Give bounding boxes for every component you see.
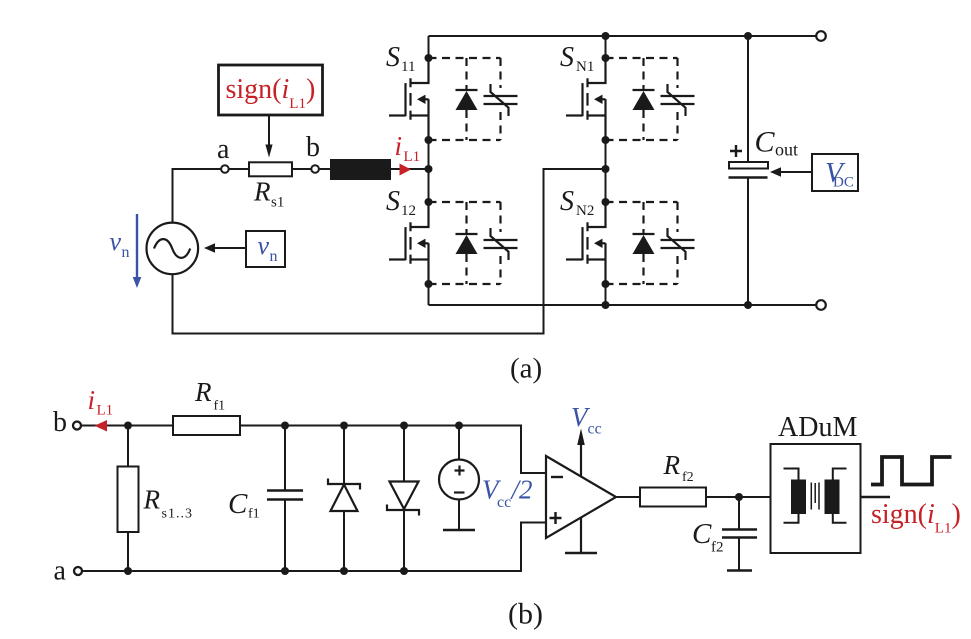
resistor Rs1: [249, 162, 292, 176]
svg-text:C: C: [228, 488, 248, 520]
body diode DN1 dashed net: [606, 58, 678, 140]
box vn: [246, 231, 285, 267]
junction D1 top: [340, 422, 348, 430]
svg-text:cc: cc: [588, 421, 602, 438]
ground Cf2: [727, 569, 752, 572]
switch cell SN2: [566, 202, 695, 284]
junction SN1 drain: [602, 54, 610, 62]
body diode DN2 dashed net: [606, 202, 678, 284]
wire top rail to comparator: [240, 426, 546, 474]
wire Rf2 to ADuM: [706, 496, 771, 498]
arrow vn box to source: [204, 243, 246, 253]
junction SN1 source: [602, 136, 610, 144]
svg-text:C: C: [755, 126, 776, 159]
svg-text:i: i: [395, 131, 403, 161]
wire node b to inductor: [319, 168, 330, 170]
svg-text:v: v: [258, 231, 270, 260]
wire Cout bus: [747, 36, 749, 305]
svg-text:a: a: [217, 134, 230, 165]
junction D1 bottom: [340, 567, 348, 575]
parasitic capacitor CN1: [661, 84, 695, 116]
svg-text:f2: f2: [682, 470, 694, 485]
switch cell S11: [389, 58, 518, 140]
junction neutral node N leg: [602, 165, 610, 173]
wire node a to resistor Rs1: [229, 168, 249, 170]
svg-text:v: v: [110, 227, 122, 256]
mosfet S12: [389, 202, 429, 284]
terminal a: [74, 567, 82, 575]
arrow sign box to Rs1: [265, 115, 272, 158]
svg-text:C: C: [692, 518, 712, 550]
parasitic capacitor C11: [484, 84, 518, 116]
wire bottom rail to comparator plus: [82, 523, 546, 572]
svg-text:(a): (a): [510, 353, 542, 385]
svg-text:i: i: [88, 385, 96, 415]
junction S11 drain: [425, 54, 433, 62]
svg-text:N1: N1: [576, 59, 594, 75]
wire top rail: [429, 35, 817, 37]
wire resistor Rs1 to node b: [292, 168, 311, 170]
isolator ADuM box: [771, 444, 861, 553]
zener diode D2: [403, 426, 405, 572]
transformer winding left: [791, 480, 806, 515]
terminal b: [73, 422, 81, 430]
junction N-leg top rail: [602, 32, 610, 40]
svg-text:S: S: [560, 186, 574, 217]
box sign(iL1): [219, 65, 323, 115]
svg-text:12: 12: [401, 203, 416, 219]
svg-text:a: a: [54, 556, 67, 587]
wire left leg segments: [428, 36, 430, 305]
junction Cf1 bottom: [281, 567, 289, 575]
parasitic capacitor C12: [484, 228, 518, 260]
wire bottom rail: [429, 304, 817, 306]
svg-text:N2: N2: [576, 203, 594, 219]
svg-text:/2: /2: [510, 475, 533, 505]
svg-text:f2: f2: [711, 540, 724, 556]
capacitor Cout: [729, 162, 768, 169]
resistor Rs1..3: [127, 426, 129, 572]
junction D2 top: [400, 422, 408, 430]
svg-text:s1: s1: [271, 195, 284, 211]
junction D2 bottom: [400, 567, 408, 575]
capacitor Cf1: [284, 426, 286, 572]
switch cell SN1: [566, 58, 695, 140]
junction S11 source: [425, 136, 433, 144]
svg-text:(b): (b): [508, 598, 543, 631]
ground comparator: [580, 518, 582, 554]
annotation arrow blue vn: [133, 214, 142, 288]
junction SN2 drain: [602, 198, 610, 206]
wire ADuM output: [861, 496, 891, 499]
terminal DC+: [816, 31, 826, 41]
arrow VDC to Cout: [770, 167, 812, 177]
junction N-leg bottom rail: [602, 301, 610, 309]
AC source vn: [147, 223, 199, 275]
node Cf2 junction: [735, 493, 743, 501]
current arrow iL1 red (b): [95, 420, 108, 432]
switch cell S12: [389, 202, 518, 284]
body diode D12 dashed net: [429, 202, 501, 284]
svg-text:s1..3: s1..3: [162, 507, 193, 522]
junction S12 source: [425, 280, 433, 288]
zener diode D1: [343, 426, 345, 572]
junction Rs top: [124, 422, 132, 430]
voltage source Vcc/2: [458, 426, 460, 460]
transformer core lines: [811, 483, 819, 510]
mosfet SN1: [566, 58, 606, 140]
svg-text:cc: cc: [497, 494, 511, 511]
plus sign Cout: [730, 145, 742, 157]
terminal DC-: [816, 300, 826, 310]
inductor L1: [330, 159, 391, 180]
op-amp comparator U1: [546, 456, 616, 538]
svg-text:R: R: [143, 485, 161, 515]
junction phase node L leg: [425, 165, 433, 173]
junction S12 drain: [425, 198, 433, 206]
svg-text:DC: DC: [833, 175, 854, 191]
svg-text:n: n: [270, 248, 278, 265]
minus input mark: [551, 476, 563, 478]
svg-text:R: R: [663, 450, 681, 480]
svg-text:f1: f1: [248, 507, 260, 522]
node b: [311, 165, 319, 173]
current arrow iL1 red: [400, 164, 412, 176]
transformer winding right: [825, 480, 840, 515]
resistor Rf2: [640, 488, 706, 507]
svg-text:L1: L1: [97, 403, 114, 419]
junction Cf1 top: [281, 422, 289, 430]
junction Cout bus bottom rail: [744, 301, 752, 309]
svg-text:R: R: [194, 377, 212, 407]
body diode D11 dashed net: [429, 58, 501, 140]
mosfet SN2: [566, 202, 606, 284]
svg-text:out: out: [775, 140, 798, 160]
resistor Rf1: [173, 416, 240, 435]
ground Vcc/2: [443, 529, 475, 532]
winding leads brackets: [784, 469, 847, 523]
junction Rs bottom: [124, 567, 132, 575]
parasitic capacitor CN2: [661, 228, 695, 260]
wire right leg segments: [605, 36, 607, 305]
svg-text:b: b: [306, 132, 320, 163]
svg-text:R: R: [253, 177, 271, 207]
mosfet S11: [389, 58, 429, 140]
svg-text:n: n: [122, 244, 130, 261]
svg-text:S: S: [560, 42, 574, 73]
capacitor Cf2: [738, 497, 740, 571]
svg-text:f1: f1: [214, 399, 226, 414]
box VDC: [812, 154, 858, 191]
svg-text:11: 11: [401, 59, 415, 75]
wire comparator output: [616, 496, 640, 498]
Vcc supply arrow: [580, 444, 582, 477]
svg-text:L1: L1: [404, 149, 421, 165]
wire return path from midpoint of N leg to AC source: [173, 169, 606, 334]
junction SN2 source: [602, 280, 610, 288]
wire AC source top to node a: [173, 169, 222, 223]
square wave symbol: [871, 457, 952, 485]
node a: [221, 165, 229, 173]
svg-text:S: S: [386, 186, 400, 217]
junction Vcc2 top: [455, 422, 463, 430]
svg-text:S: S: [386, 42, 400, 73]
wire inductor to left leg: [391, 168, 429, 170]
svg-text:b: b: [53, 407, 67, 438]
plus input mark: [550, 512, 562, 524]
wire top rail b: [81, 425, 173, 427]
junction Cout bus top rail: [744, 32, 752, 40]
svg-text:ADuM: ADuM: [778, 412, 857, 443]
